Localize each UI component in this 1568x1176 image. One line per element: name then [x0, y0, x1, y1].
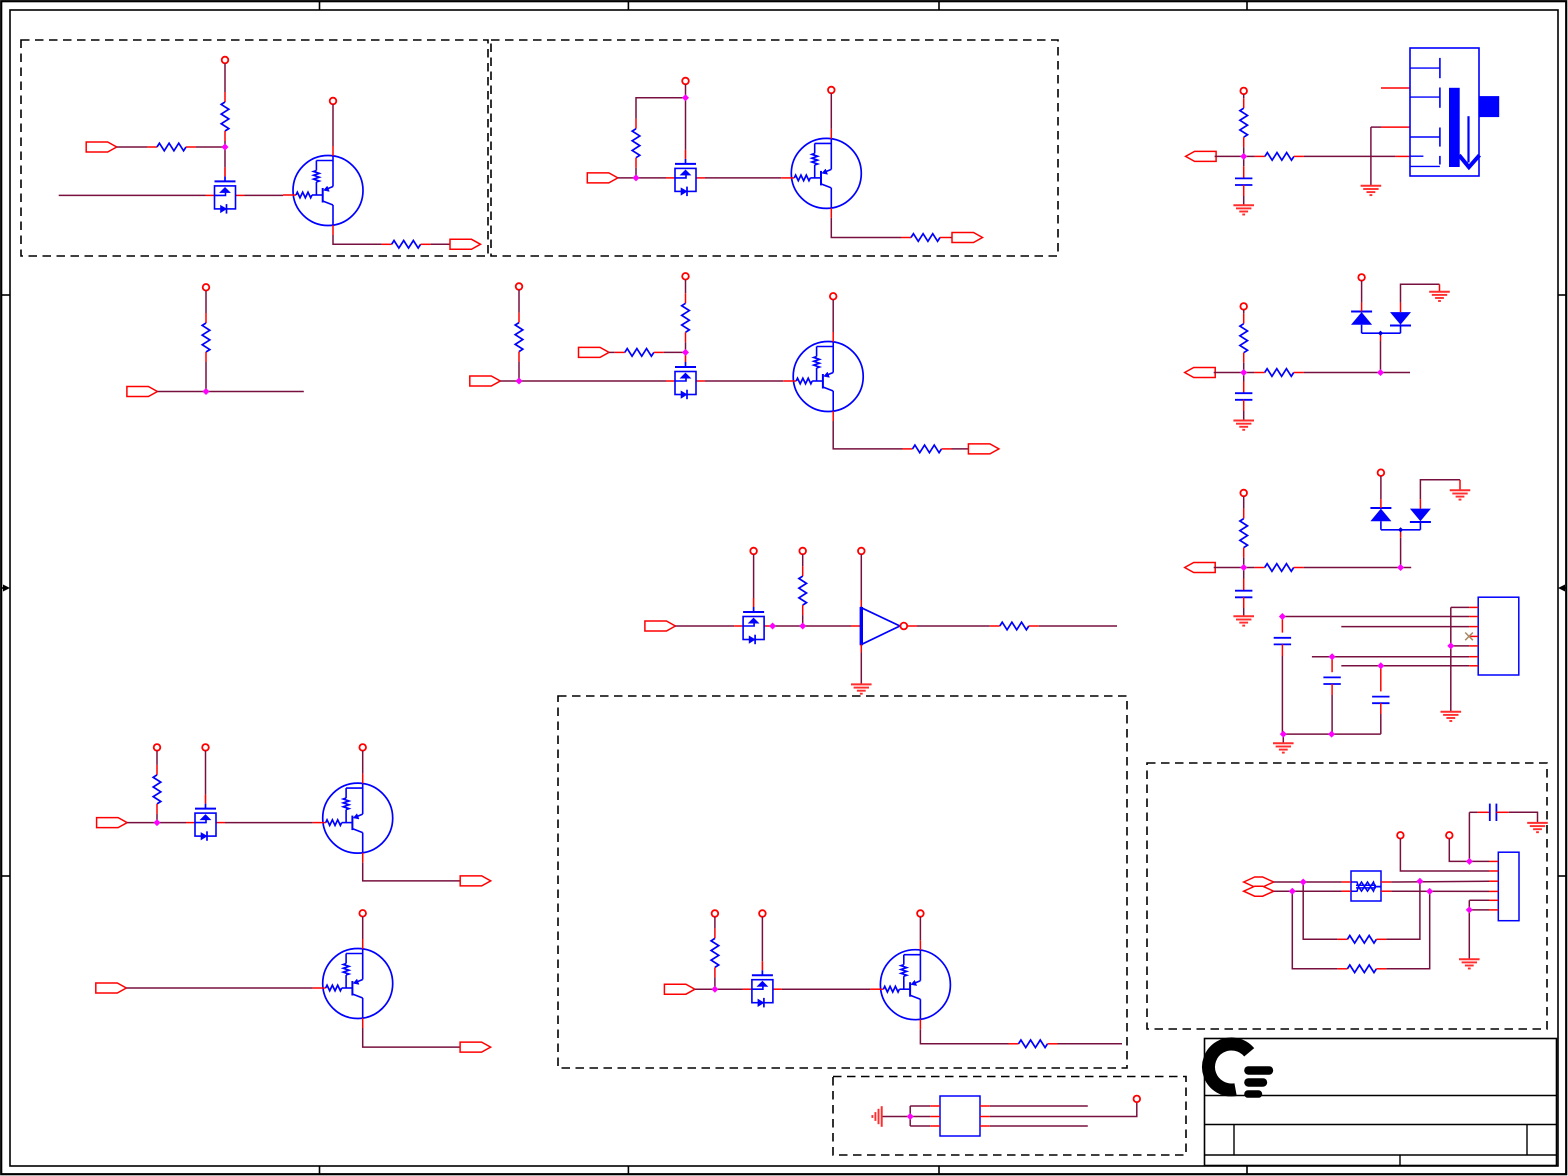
- wire: [206, 391, 304, 393]
- resistor R12: [990, 622, 1039, 630]
- capacitor C4: [1274, 638, 1291, 645]
- wire: [363, 1028, 460, 1047]
- wire: [362, 751, 364, 774]
- wire: [1420, 480, 1460, 499]
- power pin V6: [516, 283, 523, 290]
- power pin V4: [828, 87, 835, 94]
- junction: [683, 350, 689, 356]
- wire: [1243, 568, 1245, 579]
- wire: [773, 625, 851, 627]
- capacitor C7: [1490, 804, 1497, 821]
- resistor R22: [1337, 936, 1386, 944]
- wire: [196, 146, 225, 148]
- wire: [1283, 733, 1381, 735]
- company logo: [1208, 1044, 1273, 1098]
- wire: [1400, 530, 1402, 538]
- power pin V18: [917, 910, 924, 917]
- U2 left pin 3: [930, 1125, 940, 1127]
- power pin V5: [203, 284, 210, 291]
- wire: [1386, 881, 1420, 939]
- wire: [59, 194, 206, 196]
- power pin V16: [712, 910, 719, 917]
- wire: [1450, 607, 1452, 711]
- wire: [1282, 616, 1469, 618]
- wire: [117, 146, 147, 148]
- wire: [127, 822, 157, 824]
- dashed group box 2 (top-middle): [491, 40, 1058, 256]
- J3 pin 5 stub: [1489, 899, 1498, 901]
- wire: [1496, 811, 1509, 813]
- U2 left pin 2: [930, 1116, 940, 1118]
- port OUT1: [450, 239, 481, 249]
- wire: [1274, 890, 1342, 892]
- wire: [225, 822, 313, 824]
- border tick right 1: [1558, 294, 1567, 296]
- wire: [362, 917, 364, 939]
- junction: [154, 820, 160, 826]
- wire: [705, 177, 781, 179]
- wire: [1341, 665, 1469, 667]
- wire: [1371, 126, 1381, 128]
- wire: [1243, 373, 1245, 382]
- port IO2: [1244, 886, 1274, 896]
- wire: [920, 1029, 1008, 1044]
- wire: [685, 84, 687, 97]
- U2 left pin 1: [930, 1105, 940, 1107]
- wire: [224, 63, 226, 92]
- ground: [1429, 292, 1450, 301]
- ground: [1450, 490, 1471, 499]
- wire: [1303, 882, 1337, 939]
- resistor R23: [1337, 965, 1386, 973]
- J2 pin 4 stub: [1469, 635, 1478, 637]
- wire: [1281, 617, 1283, 633]
- wire: [685, 98, 687, 150]
- transistor Q10: [313, 939, 393, 1028]
- border tick bottom 2: [627, 1166, 629, 1175]
- J2 pin 2 stub: [1469, 616, 1478, 618]
- wire: [1243, 94, 1245, 98]
- title block: [1205, 1039, 1557, 1166]
- resistor R15: [1009, 1040, 1058, 1048]
- chassis ground: [872, 1106, 881, 1127]
- junction: [1448, 643, 1454, 649]
- wire: [205, 362, 207, 392]
- resistor R6: [202, 313, 210, 362]
- wire: [1243, 558, 1245, 568]
- wire: [1469, 909, 1489, 911]
- border tick bottom 4: [1246, 1166, 1248, 1175]
- wire: [1395, 155, 1410, 157]
- resistor R8: [682, 293, 690, 342]
- wire: [500, 380, 519, 382]
- wire: [1386, 891, 1429, 968]
- power pin V17: [759, 910, 766, 917]
- wire: [205, 751, 207, 795]
- junction: [1329, 654, 1335, 660]
- wire: [1380, 666, 1382, 692]
- transistor Q2: [283, 146, 363, 235]
- wire: [1274, 881, 1342, 883]
- resistor R13: [153, 765, 161, 814]
- junction: [1417, 878, 1423, 884]
- wire: [518, 362, 520, 381]
- wire: [782, 988, 871, 990]
- port OUT6: [1186, 151, 1217, 161]
- capacitor C5: [1323, 677, 1340, 684]
- wire: [1469, 860, 1489, 862]
- wire: [761, 917, 763, 961]
- J3 pin 2 stub: [1489, 870, 1498, 872]
- wire: [333, 235, 382, 244]
- border tick top 3: [938, 1, 940, 10]
- port OUT4: [460, 876, 491, 886]
- wire: [860, 645, 862, 653]
- power pin V2: [330, 98, 337, 105]
- wire: [1312, 656, 1469, 658]
- wire: [636, 98, 686, 119]
- wire: [910, 1116, 930, 1118]
- port IN3: [127, 387, 157, 397]
- power pin V8: [830, 293, 837, 300]
- transistor Q12: [870, 940, 950, 1029]
- power pin V24: [1378, 469, 1385, 476]
- resistor R11: [799, 566, 807, 615]
- U2 right pin 5: [980, 1116, 990, 1118]
- wire: [910, 1125, 930, 1127]
- wire: [1243, 608, 1245, 616]
- wire: [1039, 625, 1117, 627]
- power pin V21: [1240, 303, 1247, 310]
- wire: [1401, 567, 1412, 569]
- wire: [950, 237, 952, 239]
- wire: [1370, 127, 1372, 186]
- resistor R21: [1255, 564, 1304, 572]
- junction: [1398, 565, 1404, 571]
- power pin V23: [1240, 490, 1247, 497]
- border tick left 2: [1, 875, 10, 877]
- wire: [1281, 644, 1283, 656]
- wire: [1281, 656, 1283, 734]
- diode pair D2: [1370, 499, 1431, 532]
- ground: [1361, 186, 1382, 195]
- wire: [1304, 567, 1401, 569]
- wire: [1214, 567, 1244, 569]
- wire: [910, 1105, 930, 1107]
- mosfet Q8: [186, 795, 225, 841]
- wire: [1243, 411, 1245, 421]
- wire: [1282, 734, 1284, 743]
- wire: [990, 1105, 1088, 1107]
- inverter U1: [861, 607, 907, 645]
- junction: [1329, 731, 1335, 737]
- wire: [1468, 812, 1470, 861]
- wire: [1341, 626, 1469, 628]
- junction: [1300, 879, 1306, 885]
- port OUT8: [1185, 563, 1216, 573]
- capacitor C3: [1235, 591, 1252, 598]
- port OUT2: [952, 233, 983, 243]
- junction: [1467, 859, 1473, 865]
- wire: [714, 917, 716, 929]
- wire: [156, 751, 158, 765]
- wire: [1449, 839, 1469, 862]
- IC U2: [940, 1096, 980, 1136]
- wire: [919, 917, 921, 940]
- wire: [157, 822, 186, 824]
- wire: [990, 1125, 1088, 1127]
- power pin V15: [359, 910, 366, 917]
- mosfet Q5: [666, 353, 705, 399]
- wire: [245, 194, 284, 196]
- wire: [1243, 597, 1245, 608]
- power pin V19: [1134, 1096, 1141, 1103]
- border tick bottom 1: [319, 1166, 321, 1175]
- wire: [1509, 812, 1538, 823]
- junction: [712, 986, 718, 992]
- mosfet Q1: [206, 167, 245, 213]
- J3 pin 1 stub: [1489, 860, 1498, 862]
- power pin V9: [750, 548, 757, 555]
- ground: [1441, 712, 1462, 721]
- junction: [516, 378, 522, 384]
- dashed group box 1 (top-left): [21, 40, 488, 256]
- port IN6: [645, 621, 676, 631]
- wire: [363, 863, 461, 881]
- jack pin 2 stub: [1381, 87, 1410, 89]
- resistor R19: [1255, 369, 1304, 377]
- resistor R5: [901, 234, 950, 242]
- wire: [1361, 281, 1363, 303]
- wire: [860, 600, 862, 608]
- wire: [1244, 155, 1255, 157]
- resistor R1: [221, 92, 229, 141]
- wire: [851, 625, 861, 627]
- power pin V7: [682, 273, 689, 280]
- wire: [685, 351, 687, 354]
- power pin V10: [799, 548, 806, 555]
- ground: [1233, 421, 1254, 430]
- junction: [770, 623, 776, 629]
- junction: [1378, 663, 1384, 669]
- wire: [1401, 284, 1440, 302]
- wire: [1304, 155, 1396, 157]
- capacitor C2: [1235, 393, 1252, 400]
- resistor R2: [147, 143, 196, 151]
- wire: [832, 300, 834, 332]
- resistor R16: [1240, 98, 1248, 147]
- dashed group box 3 (bottom-middle): [558, 696, 1127, 1068]
- border center arrow left: [1, 585, 10, 592]
- wire: [753, 554, 755, 598]
- wire: [1380, 341, 1382, 373]
- port IN2: [587, 173, 618, 183]
- wire: [1243, 196, 1245, 205]
- J2 pin 7 stub: [1469, 665, 1478, 667]
- wire: [990, 1102, 1137, 1116]
- wire: [1243, 579, 1245, 591]
- port OUT7: [1185, 368, 1216, 378]
- border tick bottom 3: [938, 1166, 940, 1175]
- wire: [1244, 567, 1255, 569]
- capacitor C6: [1372, 697, 1389, 704]
- wire: [1469, 899, 1489, 901]
- junction: [1241, 154, 1247, 160]
- border tick top 2: [627, 1, 629, 10]
- wire: [675, 625, 734, 627]
- ground: [1527, 823, 1548, 832]
- wire: [1380, 714, 1382, 734]
- border tick top 4: [1246, 1, 1248, 10]
- wire: [882, 1116, 911, 1118]
- wire: [1243, 166, 1245, 178]
- port IN1: [86, 142, 117, 152]
- wire: [156, 814, 158, 823]
- wire: [157, 391, 206, 393]
- wire: [1243, 310, 1245, 314]
- no-connect X on J2 pin 4: [1465, 633, 1473, 641]
- wire: [1243, 382, 1245, 394]
- wire: [1391, 880, 1489, 883]
- wire: [917, 625, 990, 627]
- J3 pin 4 stub: [1489, 890, 1498, 892]
- port IN8: [96, 983, 127, 993]
- J2 pin 5 stub: [1469, 645, 1478, 647]
- border center arrow right: [1558, 585, 1567, 592]
- junction: [1427, 889, 1433, 895]
- wire: [1400, 839, 1489, 871]
- wire: [860, 653, 862, 685]
- resistor R10: [903, 445, 952, 453]
- wire: [705, 380, 783, 382]
- wire: [1380, 476, 1382, 499]
- port IO1: [1244, 877, 1274, 887]
- wire: [907, 625, 917, 627]
- resistor R3: [382, 241, 431, 249]
- wire: [1469, 811, 1477, 813]
- wire: [636, 177, 666, 179]
- wire: [833, 421, 902, 449]
- wire: [802, 554, 804, 566]
- wire: [1243, 496, 1245, 508]
- wire: [126, 987, 312, 989]
- wire: [830, 93, 832, 128]
- J2 pin 3 stub: [1469, 626, 1478, 628]
- wire: [1478, 811, 1490, 813]
- J3 pin 6 stub: [1489, 909, 1498, 911]
- wire: [1243, 400, 1245, 411]
- wire: [224, 141, 226, 147]
- junction: [1290, 888, 1296, 894]
- diode pair D1: [1351, 303, 1411, 336]
- transistor Q9: [313, 774, 393, 863]
- wire: [685, 280, 687, 294]
- J3 pin 3 stub: [1489, 880, 1498, 882]
- junction: [1467, 907, 1473, 913]
- J2 pin 1 stub: [1469, 606, 1478, 608]
- wire: [224, 147, 226, 167]
- wire: [695, 988, 715, 990]
- wire: [1215, 155, 1244, 157]
- resistor R9: [615, 349, 664, 357]
- dashed group box 5 (bottom connector): [833, 1077, 1186, 1156]
- ground: [1233, 616, 1254, 625]
- wire: [205, 291, 207, 313]
- resistor R7: [515, 313, 523, 362]
- border tick left 1: [1, 294, 10, 296]
- headphone jack J1: [1410, 48, 1499, 176]
- wire: [1400, 538, 1402, 568]
- port IN7: [97, 818, 128, 828]
- power pin V1: [222, 57, 229, 64]
- wire: [1459, 480, 1461, 491]
- wire: [1331, 684, 1333, 695]
- wire: [609, 351, 615, 353]
- resistor R17: [1255, 153, 1304, 161]
- ground: [1233, 205, 1254, 214]
- wire: [1381, 126, 1410, 128]
- wire: [518, 290, 520, 313]
- power pin V14: [359, 744, 366, 751]
- wire: [952, 448, 969, 450]
- U2 right pin 4: [980, 1105, 990, 1107]
- wire: [1058, 1043, 1123, 1045]
- junction: [1241, 370, 1247, 376]
- wire: [1243, 185, 1245, 196]
- wire: [909, 1106, 911, 1126]
- mosfet Q7: [734, 598, 773, 644]
- junction: [1281, 731, 1287, 737]
- wire: [1468, 910, 1470, 959]
- port OUT3: [968, 444, 999, 454]
- ground: [851, 684, 872, 693]
- U2 right pin 6: [980, 1125, 990, 1127]
- wire: [618, 177, 636, 179]
- wire: [685, 342, 687, 352]
- resistor R4: [632, 119, 640, 168]
- connector J3: [1498, 852, 1519, 921]
- junction: [907, 1114, 913, 1120]
- wire: [715, 988, 743, 990]
- wire: [1331, 695, 1333, 734]
- wire: [1451, 645, 1469, 647]
- port IN5: [579, 347, 610, 357]
- J2 pin 6 stub: [1469, 656, 1478, 658]
- wire: [1214, 372, 1244, 374]
- ground: [1273, 743, 1294, 752]
- junction: [1241, 565, 1247, 571]
- wire: [1439, 284, 1441, 291]
- wire: [1468, 900, 1470, 910]
- power pin V11: [858, 548, 865, 555]
- border tick right 2: [1558, 875, 1567, 877]
- wire: [332, 104, 334, 146]
- resistor R14: [711, 928, 719, 977]
- connector J2: [1478, 597, 1519, 675]
- wire: [1331, 657, 1333, 673]
- wire: [1243, 363, 1245, 373]
- wire: [664, 351, 686, 353]
- border tick top 1: [319, 1, 321, 10]
- junction: [633, 175, 639, 181]
- junction: [1378, 370, 1384, 376]
- junction: [683, 95, 689, 101]
- power pin V12: [154, 744, 161, 751]
- wire: [1243, 147, 1245, 156]
- wire: [1304, 372, 1381, 374]
- power pin V13: [202, 744, 209, 751]
- port IN4: [470, 376, 501, 386]
